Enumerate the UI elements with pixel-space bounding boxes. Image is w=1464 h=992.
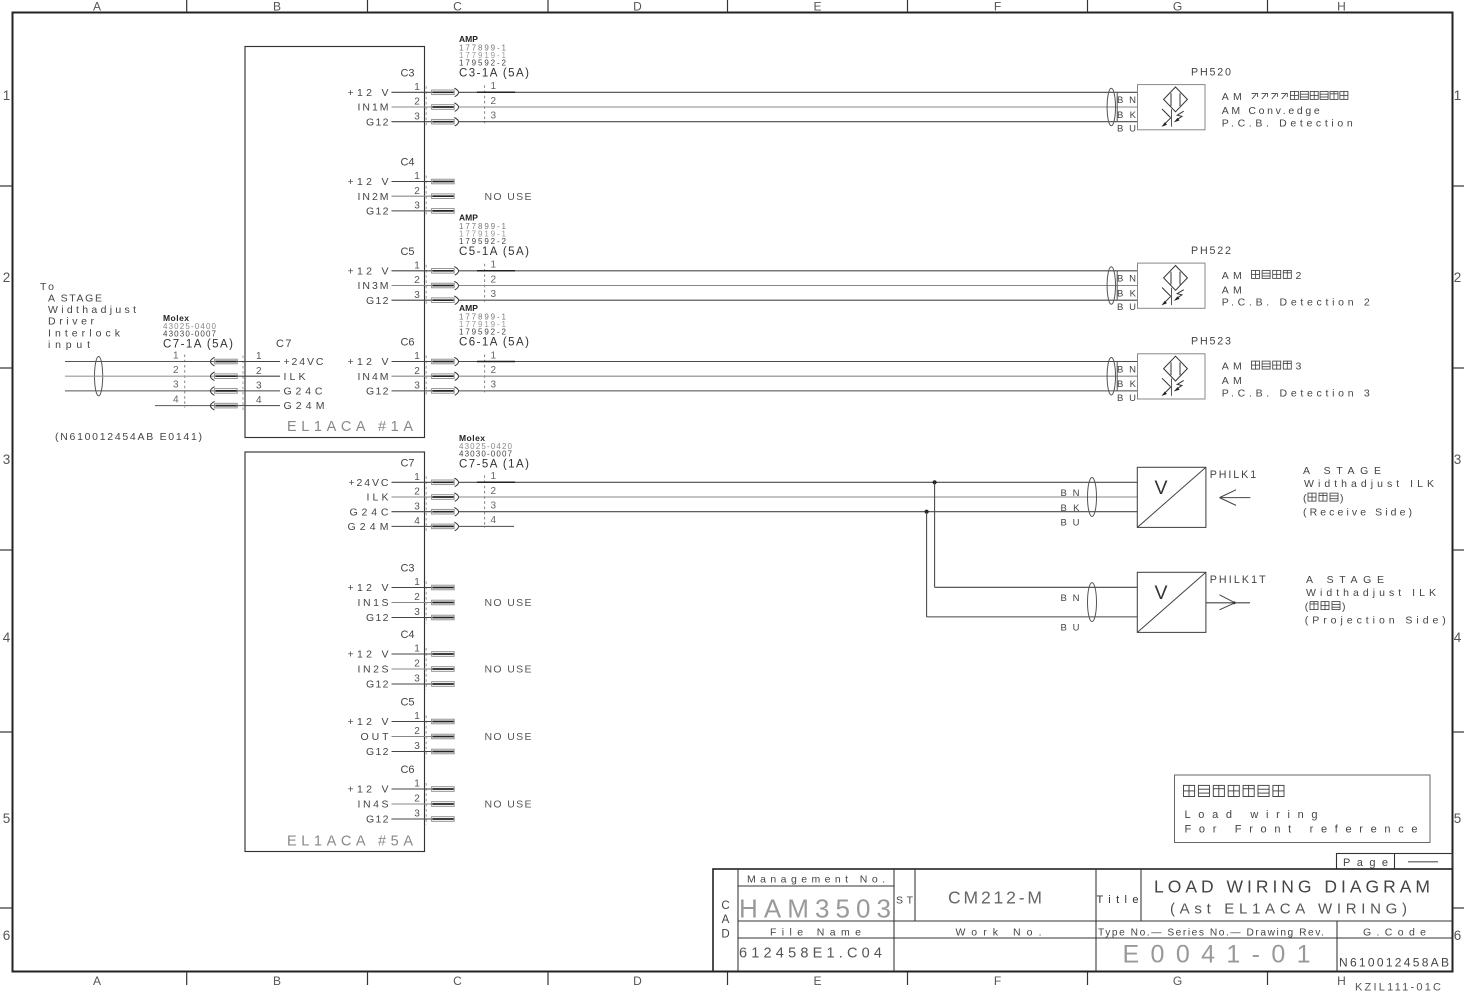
svg-text:AMP: AMP <box>459 213 478 223</box>
svg-text:3: 3 <box>491 501 497 512</box>
connector C4 (EL1ACA #1A) body dashed line <box>425 176 427 217</box>
C5 (EL1ACA #5A) pin 1 +12 V wire <box>348 711 455 728</box>
NO USE label C3 (EL1ACA #5A) <box>485 597 532 609</box>
svg-text:2: 2 <box>414 726 420 737</box>
svg-text:+24VC: +24VC <box>284 356 324 368</box>
svg-text:G12: G12 <box>366 612 389 624</box>
svg-text:43030-0007: 43030-0007 <box>163 329 217 338</box>
svg-text:3: 3 <box>414 381 420 392</box>
PHILK1T label <box>1210 574 1266 586</box>
C3 (EL1ACA #1A) pin 3 G12 wire <box>366 111 1137 129</box>
connector C6 (EL1ACA #1A) body dashed line <box>425 356 427 397</box>
connector C4 (EL1ACA #1A) group label <box>400 157 414 169</box>
interlock sensor PHILK1 <box>1137 467 1206 527</box>
junction node on +24VC wire <box>933 480 937 484</box>
NO USE label C6 (EL1ACA #5A) <box>485 799 532 811</box>
C4 (EL1ACA #1A) pin 2 IN2M wire <box>358 186 455 203</box>
svg-text:(: ( <box>1305 601 1309 613</box>
svg-text:2: 2 <box>1454 270 1462 285</box>
mating connector C3 (EL1ACA #1A) dashed line <box>484 85 486 123</box>
C6 (EL1ACA #1A) pin 3 G12 wire <box>366 380 1137 398</box>
svg-text:2: 2 <box>491 274 497 285</box>
svg-text:3: 3 <box>491 111 497 122</box>
junction node on G24C wire <box>925 510 929 514</box>
wire BN branch to PHILK1T <box>935 482 1138 587</box>
svg-text:3: 3 <box>414 201 420 212</box>
C7 left pin 3 G24C wire <box>65 380 323 398</box>
svg-text:V: V <box>1155 477 1168 499</box>
svg-text:A: A <box>722 914 730 926</box>
svg-text:2: 2 <box>414 659 420 670</box>
connector C3 (EL1ACA #1A) body dashed line <box>425 86 427 127</box>
svg-text:IN2M: IN2M <box>358 191 389 203</box>
svg-text:1: 1 <box>491 350 497 361</box>
connector C7 (EL1ACA #5A) body dashed line <box>425 476 427 532</box>
NO USE label C4 (EL1ACA #5A) <box>485 664 532 676</box>
cable sheath oval (C7-1A cable) <box>95 357 103 396</box>
title block <box>713 869 1453 972</box>
svg-text:2: 2 <box>256 366 262 377</box>
svg-text:G12: G12 <box>366 386 389 398</box>
part numbers AMP C5-1A <box>459 213 529 259</box>
svg-text:E: E <box>813 974 821 988</box>
svg-text:G12: G12 <box>366 814 389 826</box>
part numbers AMP C3-1A <box>459 34 529 80</box>
cable (N610012454AB E0141) label <box>55 431 202 443</box>
C3 (EL1ACA #5A) pin 2 IN1S wire <box>358 592 455 609</box>
note box: load wiring for front reference <box>1175 775 1431 843</box>
cable sheath oval at PH522 <box>1107 267 1115 305</box>
svg-text:IN2S: IN2S <box>358 664 389 676</box>
svg-text:4: 4 <box>414 516 420 527</box>
svg-text:4: 4 <box>1454 630 1462 645</box>
wire color labels BN BK BU at PH522 <box>1117 271 1137 313</box>
connector C5 (EL1ACA #1A) group label <box>400 246 414 258</box>
svg-text:PHILK1: PHILK1 <box>1210 469 1257 481</box>
svg-text:C: C <box>453 0 462 13</box>
svg-text:2: 2 <box>491 96 497 107</box>
svg-text:G12: G12 <box>366 746 389 758</box>
svg-text:C3: C3 <box>400 563 414 575</box>
photo sensor PH523 <box>1138 354 1206 399</box>
svg-text:IN1M: IN1M <box>358 102 389 114</box>
svg-text:G12: G12 <box>366 206 389 218</box>
svg-text:H: H <box>1337 974 1346 988</box>
photo sensor PH520 <box>1138 85 1206 130</box>
title block texts <box>721 874 1449 970</box>
svg-text:5: 5 <box>3 811 11 826</box>
C4 (EL1ACA #5A) pin 1 +12 V wire <box>348 644 455 661</box>
C7 left pin 1 +24VC wire <box>65 350 324 368</box>
connector C5 (EL1ACA #5A) body dashed line <box>425 716 427 758</box>
svg-text:2: 2 <box>414 275 420 286</box>
svg-text:NO USE: NO USE <box>485 731 532 743</box>
svg-text:): ) <box>1340 493 1344 505</box>
svg-text:NO USE: NO USE <box>485 191 532 203</box>
C3 (EL1ACA #5A) pin 1 +12 V wire <box>348 577 455 594</box>
svg-text:+24VC: +24VC <box>349 477 389 489</box>
svg-text:NO USE: NO USE <box>485 799 532 811</box>
svg-text:3: 3 <box>414 741 420 752</box>
svg-text:C7-5A (1A): C7-5A (1A) <box>459 459 529 471</box>
PH520 label <box>1191 67 1231 79</box>
svg-text:1: 1 <box>414 472 420 483</box>
svg-text:2: 2 <box>491 365 497 376</box>
svg-text:4: 4 <box>256 395 262 406</box>
svg-text:D: D <box>633 974 642 988</box>
C6 (EL1ACA #5A) pin 1 +12 V wire <box>348 779 455 796</box>
svg-text:1: 1 <box>1454 88 1462 103</box>
svg-text:C7-1A (5A): C7-1A (5A) <box>163 338 233 350</box>
svg-text:PH522: PH522 <box>1191 245 1231 257</box>
svg-text:3: 3 <box>414 607 420 618</box>
svg-text:N610012458AB: N610012458AB <box>1339 956 1449 970</box>
svg-text:4: 4 <box>491 515 497 526</box>
C5 (EL1ACA #5A) pin 3 G12 wire <box>366 741 454 758</box>
svg-text:C5-1A (5A): C5-1A (5A) <box>459 246 529 258</box>
svg-text:1: 1 <box>3 88 11 103</box>
svg-text:C6: C6 <box>400 764 414 776</box>
cable sheath oval at PHILK1T <box>1088 583 1097 622</box>
svg-text:43030-0007: 43030-0007 <box>459 450 513 459</box>
svg-text:1: 1 <box>414 779 420 790</box>
svg-text:A: A <box>93 0 101 13</box>
svg-text:3: 3 <box>1296 361 1302 373</box>
svg-text:PH523: PH523 <box>1191 336 1231 348</box>
svg-text:2: 2 <box>414 487 420 498</box>
svg-text:C5: C5 <box>400 246 414 258</box>
svg-text:2: 2 <box>414 366 420 377</box>
C4 (EL1ACA #1A) pin 3 G12 wire <box>366 201 454 218</box>
wire color labels at PHILK1 <box>1061 488 1081 528</box>
svg-text:IN4M: IN4M <box>358 371 389 383</box>
svg-text:1: 1 <box>491 471 497 482</box>
PH523 description text <box>1222 361 1370 400</box>
PHILK1 label <box>1210 469 1257 481</box>
svg-text:4: 4 <box>3 630 11 645</box>
svg-text:3: 3 <box>414 674 420 685</box>
C7 (EL1ACA #5A) pin 4 G24M wire <box>348 515 515 533</box>
svg-text:3: 3 <box>414 809 420 820</box>
C7 (EL1ACA #5A) pin 2 ILK wire <box>367 486 1138 504</box>
connector C7 (EL1ACA #5A) group label <box>400 458 414 470</box>
svg-text:6: 6 <box>1454 928 1462 943</box>
svg-text:1: 1 <box>414 644 420 655</box>
PHILK1 receive arrow <box>1220 490 1251 506</box>
connector C6 (EL1ACA #5A) body dashed line <box>425 783 427 825</box>
svg-text:1: 1 <box>256 351 262 362</box>
svg-text:3: 3 <box>173 380 179 391</box>
svg-text:C7: C7 <box>400 458 414 470</box>
svg-text:2: 2 <box>1296 270 1302 282</box>
svg-text:D: D <box>633 0 642 13</box>
connector C3 (EL1ACA #5A) body dashed line <box>425 582 427 624</box>
svg-text:G: G <box>1173 0 1182 13</box>
PH522 label <box>1191 245 1231 257</box>
C5 (EL1ACA #1A) pin 1 +12 V wire <box>348 260 1138 278</box>
connector C3 (EL1ACA #1A) group label <box>400 68 414 80</box>
mating connector C7 (EL1ACA #5A) dashed line <box>484 475 486 528</box>
svg-text:B: B <box>273 974 281 988</box>
C5 (EL1ACA #5A) pin 2 OUT wire <box>361 726 455 743</box>
mating connector C5 (EL1ACA #1A) dashed line <box>484 264 486 302</box>
C3 (EL1ACA #1A) pin 2 IN1M wire <box>358 96 1138 114</box>
part numbers AMP C6-1A <box>459 303 529 349</box>
connector C6 (EL1ACA #1A) group label <box>400 337 414 349</box>
svg-text:2: 2 <box>414 592 420 603</box>
ECU box EL1ACA #5A <box>245 452 425 852</box>
C6 (EL1ACA #1A) pin 2 IN4M wire <box>358 365 1138 383</box>
svg-text:NO USE: NO USE <box>485 597 532 609</box>
svg-text:KZIL111-01C: KZIL111-01C <box>1355 982 1441 992</box>
photo sensor PH522 <box>1138 263 1206 308</box>
part numbers Molex C7-1A <box>163 313 233 351</box>
svg-text:P.C.B. Detection 3: P.C.B. Detection 3 <box>1222 387 1370 399</box>
svg-text:C: C <box>453 974 462 988</box>
C4 (EL1ACA #1A) pin 1 +12 V wire <box>348 171 455 188</box>
svg-text:IN1S: IN1S <box>358 597 389 609</box>
svg-text:F: F <box>994 974 1001 988</box>
svg-text:NO USE: NO USE <box>485 664 532 676</box>
C6 (EL1ACA #1A) pin 1 +12 V wire <box>348 350 1138 368</box>
svg-text:G12: G12 <box>366 116 389 128</box>
connector C4 (EL1ACA #5A) body dashed line <box>425 648 427 690</box>
C3 (EL1ACA #5A) pin 3 G12 wire <box>366 607 454 624</box>
svg-text:C3-1A (5A): C3-1A (5A) <box>459 68 529 80</box>
svg-text:1: 1 <box>414 260 420 271</box>
svg-text:1: 1 <box>414 82 420 93</box>
svg-text:B: B <box>273 0 281 13</box>
C3 (EL1ACA #1A) pin 1 +12 V wire <box>348 81 1138 99</box>
svg-text:AMP: AMP <box>459 34 478 44</box>
mating connector C7-1A dashed line <box>184 355 186 408</box>
connector C5 (EL1ACA #5A) group label <box>400 697 414 709</box>
svg-text:2: 2 <box>173 365 179 376</box>
svg-text:V: V <box>1155 582 1168 604</box>
C7 (EL1ACA #5A) pin 1 +24VC wire <box>349 471 1138 489</box>
PHILK1 description text <box>1303 465 1434 519</box>
C5 (EL1ACA #1A) pin 3 G12 wire <box>366 289 1137 307</box>
svg-text:Title: Title <box>1097 894 1139 906</box>
svg-text:): ) <box>1342 601 1346 613</box>
svg-text:3: 3 <box>414 111 420 122</box>
svg-text:4: 4 <box>173 394 179 405</box>
page box <box>1337 854 1453 870</box>
C4 (EL1ACA #5A) pin 2 IN2S wire <box>358 659 455 676</box>
connector C3 (EL1ACA #5A) group label <box>400 563 414 575</box>
PH522 description text <box>1222 270 1370 309</box>
mating connector C6 (EL1ACA #1A) dashed line <box>484 355 486 393</box>
svg-text:D: D <box>721 928 729 940</box>
svg-text:1: 1 <box>414 711 420 722</box>
svg-text:LOAD WIRING DIAGRAM: LOAD WIRING DIAGRAM <box>1154 877 1430 897</box>
svg-text:AMP: AMP <box>459 303 478 313</box>
connector C4 (EL1ACA #5A) group label <box>400 629 414 641</box>
cable sheath oval at PHILK1 <box>1088 478 1097 517</box>
wire color labels at PHILK1T <box>1061 593 1080 634</box>
svg-text:C: C <box>721 900 729 912</box>
cable sheath oval at PH523 <box>1107 357 1115 395</box>
wire color labels BN BK BU at PH523 <box>1117 362 1137 404</box>
svg-text:1: 1 <box>173 350 179 361</box>
PHILK1T description text <box>1305 574 1446 627</box>
svg-text:G12: G12 <box>366 295 389 307</box>
svg-text:1: 1 <box>414 351 420 362</box>
svg-text:C4: C4 <box>400 157 414 169</box>
svg-text:2: 2 <box>414 186 420 197</box>
cable sheath oval at PH520 <box>1107 88 1115 126</box>
svg-text:3: 3 <box>256 381 262 392</box>
interlock sensor PHILK1T <box>1137 572 1206 632</box>
svg-text:3: 3 <box>414 501 420 512</box>
svg-text:C6-1A (5A): C6-1A (5A) <box>459 337 529 349</box>
svg-text:(: ( <box>1303 493 1307 505</box>
svg-text:OUT: OUT <box>361 731 390 743</box>
connector C5 (EL1ACA #1A) body dashed line <box>425 265 427 306</box>
C6 (EL1ACA #5A) pin 2 IN4S wire <box>358 794 455 811</box>
svg-text:3: 3 <box>414 290 420 301</box>
svg-text:EL1ACA #5A: EL1ACA #5A <box>287 834 413 850</box>
svg-text:5: 5 <box>1454 811 1462 826</box>
PH523 label <box>1191 336 1231 348</box>
PHILK1T projection arrow <box>1206 595 1250 610</box>
NO USE label C4 <box>485 191 532 203</box>
svg-text:E: E <box>813 0 821 13</box>
svg-text:2: 2 <box>491 486 497 497</box>
svg-text:C6: C6 <box>400 337 414 349</box>
svg-text:AM Conv.edge: AM Conv.edge <box>1222 105 1320 117</box>
ECU box EL1ACA #1A <box>245 47 425 438</box>
wire color labels BN BK BU at PH520 <box>1117 92 1137 134</box>
wire BU branch to PHILK1T <box>927 512 1138 617</box>
svg-text:6: 6 <box>3 928 11 943</box>
svg-text:C5: C5 <box>400 697 414 709</box>
connector C6 (EL1ACA #5A) group label <box>400 764 414 776</box>
C6 (EL1ACA #5A) pin 3 G12 wire <box>366 809 454 826</box>
svg-text:3: 3 <box>491 289 497 300</box>
svg-text:IN3M: IN3M <box>358 280 389 292</box>
C4 (EL1ACA #5A) pin 3 G12 wire <box>366 674 454 691</box>
C5 (EL1ACA #1A) pin 2 IN3M wire <box>358 274 1138 292</box>
svg-text:1: 1 <box>491 260 497 271</box>
svg-text:G: G <box>1173 974 1182 988</box>
svg-text:3: 3 <box>3 452 11 467</box>
svg-text:C4: C4 <box>400 629 414 641</box>
svg-text:G12: G12 <box>366 679 389 691</box>
destination text: To A STAGE Widthadjust Driver Interlock input <box>40 281 136 351</box>
svg-text:Type No.— Series No.— Drawing: Type No.— Series No.— Drawing Rev. <box>1098 928 1324 939</box>
svg-text:PH520: PH520 <box>1191 67 1231 79</box>
drawing code KZIL111-01C <box>1355 982 1441 992</box>
connector C7 left body dashed line <box>242 356 244 412</box>
svg-text:IN4S: IN4S <box>358 799 389 811</box>
C7 (EL1ACA #5A) pin 3 G24C wire <box>350 501 1138 519</box>
C7 left pin 4 G24M wire <box>155 394 325 412</box>
svg-text:1: 1 <box>414 171 420 182</box>
NO USE label C5 (EL1ACA #5A) <box>485 731 532 743</box>
svg-text:3: 3 <box>1454 452 1462 467</box>
svg-text:1: 1 <box>414 577 420 588</box>
PH520 description text <box>1222 91 1353 130</box>
C7 left pin 2 ILK wire <box>65 365 306 383</box>
svg-text:P.C.B. Detection 2: P.C.B. Detection 2 <box>1222 297 1370 309</box>
svg-text:2: 2 <box>414 97 420 108</box>
connector C7 (left, EL1ACA #1A) group label <box>276 338 292 350</box>
svg-text:H: H <box>1337 0 1346 13</box>
svg-text:3: 3 <box>491 380 497 391</box>
svg-text:F: F <box>994 0 1001 13</box>
svg-text:A: A <box>93 974 101 988</box>
svg-text:C3: C3 <box>400 68 414 80</box>
svg-text:EL1ACA #1A: EL1ACA #1A <box>287 419 413 435</box>
svg-text:2: 2 <box>3 270 11 285</box>
svg-text:2: 2 <box>414 794 420 805</box>
svg-text:1: 1 <box>491 81 497 92</box>
svg-text:C7: C7 <box>276 338 292 350</box>
svg-text:Interlock: Interlock <box>48 327 121 339</box>
part numbers Molex C7-5A <box>459 433 529 471</box>
